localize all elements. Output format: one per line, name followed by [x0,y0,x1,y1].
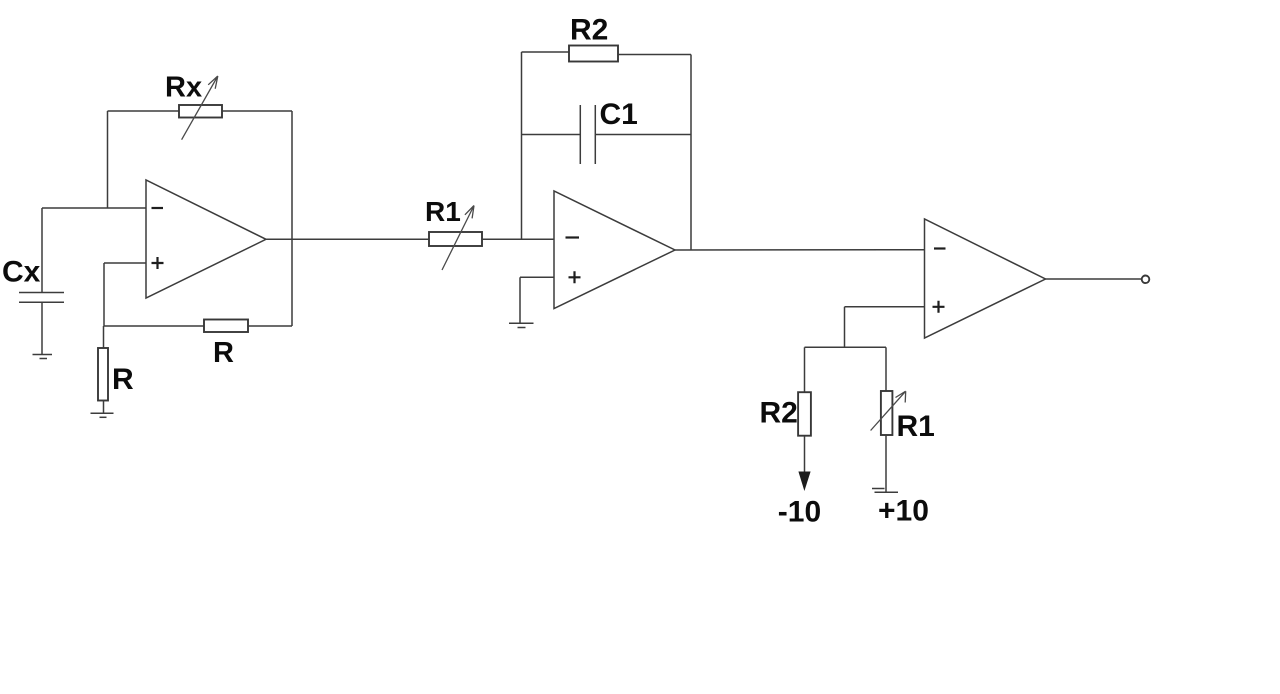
output terminal circle [1142,276,1150,284]
svg-text:R1: R1 [425,196,461,227]
capacitor Cx plates [19,292,64,294]
svg-text:R: R [112,363,134,396]
wire: U1 output to R1 [266,238,429,240]
wire: Cx vertical lower [41,302,43,354]
ground under R [91,412,114,414]
capacitor C1 plates [579,105,581,164]
wire: U3 non-inverting input [845,306,925,308]
wire: bottom feedback right segment [248,325,292,327]
ground under Cx [33,354,53,356]
wire: bottom feedback left segment [104,325,204,327]
wire: Rx right leg down to bottom feedback [291,111,293,326]
resistor Rx body [179,105,222,118]
svg-text:-10: -10 [778,495,821,528]
svg-text:+10: +10 [878,495,929,528]
svg-text:Cx: Cx [2,256,41,289]
arrow to -10 supply [798,472,810,492]
U3 plus symbol [933,301,945,313]
wire: right bias leg [885,347,887,391]
resistor R1 body (variable, mid) [429,232,482,246]
resistor R2 body (top) [569,46,618,62]
op-amp U3 triangle [925,219,1046,338]
U3 minus symbol [934,247,946,249]
wire: left bias leg [804,347,806,393]
U2 minus symbol [566,236,580,238]
wire: Rx top left segment [108,110,180,112]
U1 plus symbol [152,257,164,269]
wire: R2 top right segment [618,54,691,56]
wire: stub above vertical R [103,326,105,348]
wire: U2 feedback right leg [690,55,692,251]
wire: U3 + input down leg [844,307,846,348]
wire: Cx node to inverting input of U1 [42,207,146,209]
U2 plus symbol [569,271,581,283]
wire: Cx vertical upper [41,208,43,293]
wire: stub below vertical R [103,401,105,414]
svg-text:R: R [213,337,234,369]
wire: below R2 to arrow [804,436,806,478]
wire: R2 top left segment [522,51,570,53]
variable arrow through R1 [442,206,474,271]
svg-text:R2: R2 [760,397,798,430]
wire: non-inverting input of U1 [104,262,146,264]
wire: U3 output [1046,278,1142,280]
wire: U2 + input down leg [519,277,521,323]
wire: Rx left leg [107,111,109,208]
resistor R2 body (bias) [798,392,811,436]
wire: C1 left segment [522,134,581,136]
resistor R1 body (bias, variable) [881,391,893,435]
wire: below R1 to ground [885,435,887,493]
svg-text:R1: R1 [897,410,935,443]
resistor R body (vertical to ground) [98,348,108,401]
variable arrow through bias R1 [871,391,906,430]
op-amp U2 triangle [554,191,675,309]
ground at U2 + input [509,322,534,324]
wire: C1 right segment [595,134,691,136]
U1 minus symbol [152,207,164,209]
svg-text:Rx: Rx [165,72,202,104]
wire: bias network horizontal [805,346,887,348]
wire: R1 to inverting input of U2 [482,238,554,240]
svg-text:C1: C1 [600,98,638,131]
resistor R body (feedback) [204,320,248,333]
wire: U2 feedback left leg [521,52,523,239]
wire: U2 output to U3 inverting input [675,249,925,251]
op-amp U1 triangle [146,180,266,298]
wire: U2 non-inverting input [520,276,554,278]
variable arrow through Rx [182,76,218,140]
wire: Rx top right segment [222,110,292,112]
wire: vertical from + input down [103,263,105,326]
ground at +10 [875,491,899,493]
svg-text:R2: R2 [570,14,608,47]
